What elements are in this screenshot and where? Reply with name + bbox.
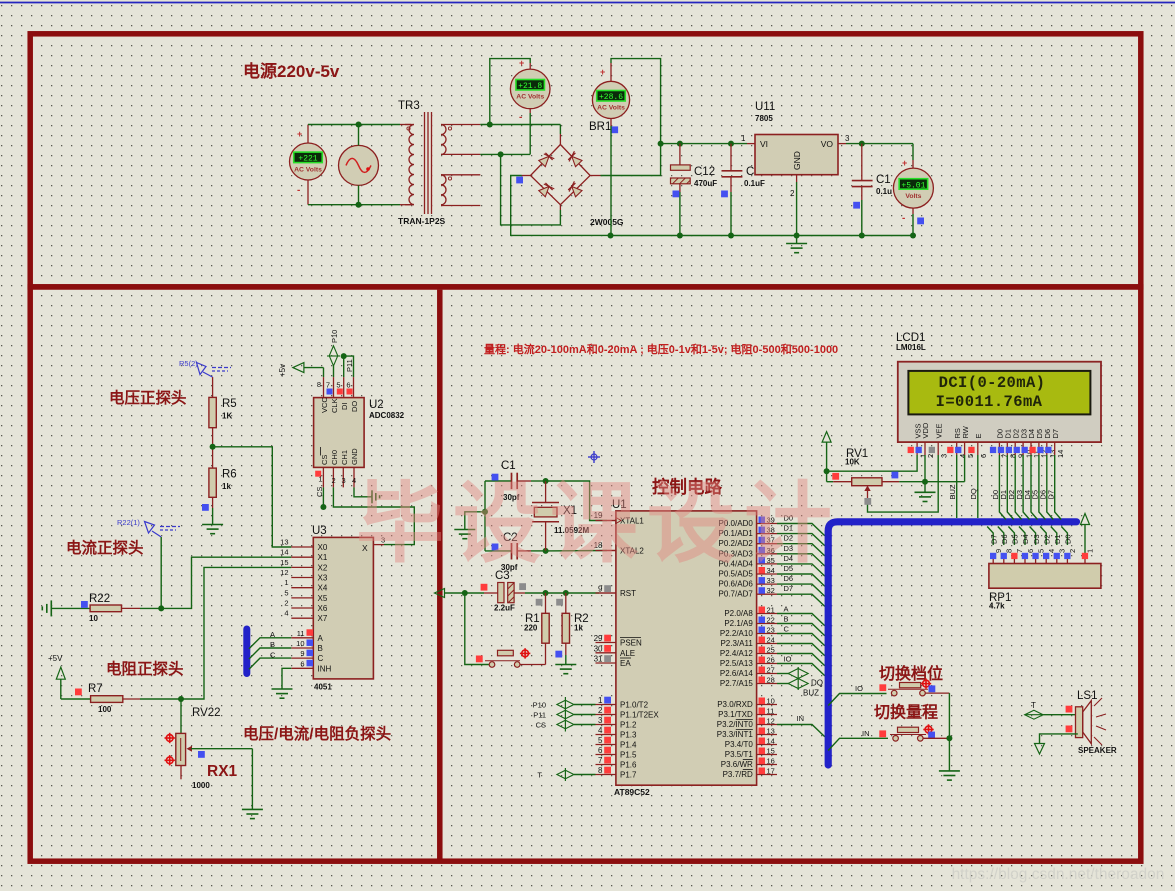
pin P3.4/T0 bbox=[757, 744, 777, 746]
node junction sine top bbox=[356, 122, 362, 128]
svg-text:6: 6 bbox=[300, 659, 304, 668]
wire LCD D3 bbox=[1023, 455, 1030, 520]
wire P2.5 to bus bbox=[777, 664, 825, 676]
potentiometer RV1 bbox=[827, 481, 834, 483]
node junction C12 top bbox=[677, 141, 683, 147]
svg-text:10: 10 bbox=[89, 614, 98, 623]
pin stubs U2 bottom bbox=[322, 467, 324, 487]
svg-text:P10: P10 bbox=[533, 701, 546, 710]
svg-text:VI: VI bbox=[760, 139, 768, 149]
pin marker red button1 bbox=[879, 684, 886, 691]
wire C to bus bbox=[249, 658, 291, 669]
svg-text:15: 15 bbox=[280, 558, 288, 567]
svg-text:X7: X7 bbox=[318, 614, 328, 623]
wire LCD D6 bbox=[1047, 455, 1054, 520]
crystal X1 bbox=[545, 481, 547, 503]
svg-text:14: 14 bbox=[280, 548, 288, 557]
resistor R2 bbox=[565, 593, 567, 613]
svg-text:电源220v-5v: 电源220v-5v bbox=[243, 61, 340, 81]
ground symbol R6 bbox=[202, 524, 223, 526]
node junction voltmeter5 bottom bbox=[910, 233, 916, 239]
pin P0.0/AD0 bbox=[757, 523, 777, 525]
pin marker blue bbox=[611, 126, 618, 133]
pin X1 bbox=[291, 556, 313, 558]
svg-text:C: C bbox=[746, 166, 754, 178]
svg-text:14: 14 bbox=[1056, 450, 1065, 458]
svg-text:P2.7/A15: P2.7/A15 bbox=[720, 679, 753, 688]
wire DI DO tie P11 bbox=[343, 356, 345, 377]
pin X3 bbox=[291, 577, 313, 579]
pin P3.5/T1 bbox=[757, 754, 777, 756]
svg-text:RW: RW bbox=[961, 425, 970, 438]
svg-text:12: 12 bbox=[767, 717, 775, 726]
svg-text:3: 3 bbox=[1058, 549, 1067, 553]
svg-text:8: 8 bbox=[317, 380, 321, 389]
push button reset bbox=[489, 662, 495, 668]
wire probe to R5 bbox=[212, 377, 214, 397]
data bus blue bbox=[828, 522, 1076, 765]
svg-text:RV22: RV22 bbox=[192, 707, 221, 719]
svg-text:11: 11 bbox=[767, 707, 775, 716]
terminal CS bbox=[557, 720, 574, 729]
svg-text:D0: D0 bbox=[1064, 534, 1073, 544]
ground symbol U2 right-facing bbox=[371, 490, 373, 503]
svg-text:26: 26 bbox=[767, 656, 775, 665]
svg-text:P3.3/INT1: P3.3/INT1 bbox=[717, 730, 754, 739]
ground symbol INH bbox=[272, 688, 293, 690]
wire LCD D0 bbox=[999, 455, 1006, 520]
svg-text:13: 13 bbox=[767, 727, 775, 736]
svg-text:8: 8 bbox=[598, 766, 603, 775]
svg-text:RX1: RX1 bbox=[207, 763, 238, 780]
svg-text:1: 1 bbox=[284, 578, 288, 587]
wire R7 node to X2 bbox=[181, 567, 291, 699]
svg-text:4: 4 bbox=[284, 609, 288, 618]
pin marker red speaker bottom bbox=[1066, 726, 1073, 733]
svg-text:X3: X3 bbox=[318, 574, 328, 583]
pin marker grey R2 bbox=[556, 599, 563, 606]
svg-text:电阻正探头: 电阻正探头 bbox=[106, 659, 184, 678]
wire P2.2 to bus bbox=[777, 634, 825, 646]
svg-text:U11: U11 bbox=[755, 101, 775, 113]
svg-text:33: 33 bbox=[767, 576, 775, 585]
wire VO rail bbox=[838, 143, 846, 145]
pin marker blue C2 bbox=[492, 544, 499, 551]
svg-text:P3.0/RXD: P3.0/RXD bbox=[717, 700, 753, 709]
svg-text:25: 25 bbox=[767, 646, 775, 655]
RP1 pin 4 bbox=[1040, 527, 1046, 546]
svg-text:毕: 毕 bbox=[356, 474, 444, 573]
pin P2.3/A11 bbox=[757, 643, 777, 645]
svg-text:U3: U3 bbox=[312, 525, 327, 537]
svg-text:11: 11 bbox=[297, 629, 305, 638]
svg-text:T: T bbox=[537, 771, 542, 780]
pin marker red R7 bbox=[75, 689, 82, 696]
node junction VI bbox=[658, 141, 664, 147]
svg-text:2: 2 bbox=[790, 189, 795, 198]
RP1 pin 8 bbox=[998, 527, 1004, 546]
svg-text:D7: D7 bbox=[784, 584, 794, 593]
pin marker grey R1 bbox=[536, 599, 543, 606]
svg-text:TR3: TR3 bbox=[398, 100, 420, 112]
pin P0.3/AD3 bbox=[757, 553, 777, 555]
node junction rail bbox=[608, 233, 614, 239]
svg-text:量程: 电流20-100mA和0-20mA ; 电压0-1v: 量程: 电流20-100mA和0-20mA ; 电压0-1v和1-5v; 电阻0… bbox=[484, 342, 838, 356]
wire button right to R1 bbox=[520, 664, 546, 666]
node junction divider bbox=[210, 444, 216, 450]
svg-text:P3.4/T0: P3.4/T0 bbox=[725, 740, 754, 749]
wire R22 left bbox=[51, 607, 90, 609]
svg-text:课: 课 bbox=[550, 474, 639, 573]
svg-text:D7: D7 bbox=[1047, 490, 1056, 500]
pin P3.2/INT0 bbox=[757, 724, 777, 726]
wire to bridge bottom bbox=[501, 154, 561, 225]
ground symbol VDD bbox=[924, 482, 926, 493]
pin X7 bbox=[291, 617, 313, 619]
svg-text:CS: CS bbox=[315, 487, 324, 497]
svg-text:DQ: DQ bbox=[811, 679, 823, 688]
svg-text:D6: D6 bbox=[784, 574, 794, 583]
pin X6 bbox=[291, 607, 313, 609]
pin XTAL1 bbox=[596, 520, 616, 522]
svg-text:+: + bbox=[600, 67, 605, 77]
potentiometer RV22 bbox=[180, 699, 182, 733]
pin P1.2 bbox=[596, 724, 616, 726]
ground symbol XTAL bbox=[454, 529, 475, 531]
svg-text:D3: D3 bbox=[1032, 534, 1041, 544]
RP1 pin 6 bbox=[1019, 527, 1025, 546]
pin X4 bbox=[291, 587, 313, 589]
resistor R6 bbox=[209, 468, 216, 497]
wire RST node bbox=[546, 592, 600, 594]
pin marker red speaker top bbox=[1066, 706, 1073, 713]
svg-text:AC Volts: AC Volts bbox=[294, 166, 322, 173]
wire P3.2 IN to bus bbox=[777, 725, 825, 737]
pin P0.5/AD5 bbox=[757, 573, 777, 575]
svg-text:P1.1/T2EX: P1.1/T2EX bbox=[620, 711, 659, 720]
pin PSEN bbox=[596, 642, 616, 644]
svg-text:EA: EA bbox=[620, 659, 631, 668]
svg-text:A: A bbox=[318, 634, 324, 643]
cursor crosshair marker bbox=[588, 451, 600, 463]
svg-text:P1.6: P1.6 bbox=[620, 761, 637, 770]
svg-text:D7: D7 bbox=[1051, 429, 1060, 439]
svg-text:P2.0/A8: P2.0/A8 bbox=[724, 609, 753, 618]
svg-text:+28.6: +28.6 bbox=[599, 93, 623, 102]
svg-text:4051: 4051 bbox=[314, 683, 332, 692]
pin EA bbox=[596, 662, 616, 664]
svg-text:INH: INH bbox=[318, 664, 332, 673]
svg-text:6: 6 bbox=[1026, 549, 1035, 553]
terminal chain P10 P11 CS bbox=[564, 697, 566, 732]
svg-text:2: 2 bbox=[598, 706, 603, 715]
push button 切换档位 bbox=[891, 690, 897, 696]
svg-text:P0.7/AD7: P0.7/AD7 bbox=[719, 590, 754, 599]
wire divider to X0 bbox=[213, 447, 292, 547]
svg-text:CH0: CH0 bbox=[330, 450, 339, 465]
wire D0 to bus bbox=[777, 524, 825, 536]
node junction C top bbox=[728, 141, 734, 147]
pin B bbox=[291, 647, 313, 649]
svg-text:2: 2 bbox=[284, 599, 288, 608]
svg-text:+5v: +5v bbox=[278, 364, 287, 377]
pin marker blue bridge left bbox=[516, 177, 523, 184]
svg-text:0.1uF: 0.1uF bbox=[744, 179, 765, 188]
svg-text:P3.7/RD: P3.7/RD bbox=[723, 770, 753, 779]
svg-text:AC Volts: AC Volts bbox=[516, 94, 544, 101]
svg-text:+: + bbox=[902, 158, 907, 168]
pin P0.1/AD1 bbox=[757, 533, 777, 535]
wire VI rail bbox=[661, 143, 747, 145]
wire R7 right bbox=[123, 698, 140, 700]
svg-text:DQ: DQ bbox=[969, 488, 978, 499]
svg-text:+221: +221 bbox=[298, 155, 317, 164]
terminal P10 bbox=[557, 700, 574, 709]
RP1 pin 9 bbox=[987, 527, 993, 546]
wire P2.3 to bus bbox=[777, 644, 825, 656]
pin X2 bbox=[291, 566, 313, 568]
svg-text:https://blog.csdn.net/theroado: https://blog.csdn.net/theroadon bbox=[952, 866, 1165, 883]
wire D3 to bus bbox=[777, 554, 825, 566]
wire D7 to bus bbox=[777, 594, 825, 606]
terminal BUZ diamond bbox=[788, 679, 808, 689]
pin P0.2/AD2 bbox=[757, 543, 777, 545]
svg-text:R5: R5 bbox=[222, 398, 237, 410]
svg-text:设: 设 bbox=[453, 474, 541, 573]
svg-text:BR1: BR1 bbox=[589, 121, 611, 133]
svg-text:7805: 7805 bbox=[755, 114, 773, 123]
pin P3.6/WR bbox=[757, 764, 777, 766]
RP1 pin 7 bbox=[1008, 527, 1014, 546]
pin marker blue C1 bbox=[492, 474, 499, 481]
svg-text:27: 27 bbox=[767, 666, 775, 675]
svg-text:6: 6 bbox=[979, 454, 988, 458]
svg-text:10: 10 bbox=[767, 697, 775, 706]
wire D4 to bus bbox=[777, 564, 825, 576]
ground symbol R2 bbox=[555, 664, 576, 666]
DC voltmeter +5.01 bbox=[912, 144, 914, 160]
svg-text:2: 2 bbox=[1068, 549, 1077, 553]
svg-text:AC Volts: AC Volts bbox=[597, 105, 625, 112]
wire bridge right to VI bbox=[590, 175, 600, 177]
node junction XTAL2 bbox=[543, 548, 549, 554]
node junction XTAL1 bbox=[543, 478, 549, 484]
wire P2.4 to bus bbox=[777, 654, 825, 666]
svg-text:28: 28 bbox=[767, 676, 775, 685]
svg-text:4: 4 bbox=[598, 726, 603, 735]
pin C bbox=[291, 657, 313, 659]
svg-text:X5: X5 bbox=[318, 594, 328, 603]
wire A to bus bbox=[249, 638, 291, 649]
pin marker grey wiper bbox=[864, 498, 871, 505]
svg-text:3: 3 bbox=[939, 454, 948, 458]
pin 2 wire bbox=[796, 175, 798, 182]
svg-text:C1: C1 bbox=[501, 460, 516, 472]
svg-text:1: 1 bbox=[741, 134, 746, 143]
wire secondary top to bridge bbox=[480, 124, 560, 126]
node junction R7 bbox=[178, 696, 184, 702]
wire wiper to ground bbox=[251, 749, 253, 810]
wire D1 to bus bbox=[777, 534, 825, 546]
svg-text:切换档位: 切换档位 bbox=[879, 664, 943, 683]
svg-text:P2.6/A14: P2.6/A14 bbox=[720, 669, 753, 678]
handle marker top bbox=[166, 735, 173, 742]
svg-text:VO: VO bbox=[821, 139, 834, 149]
svg-text:R6: R6 bbox=[222, 469, 237, 481]
ground symbol RV22 bbox=[242, 808, 263, 810]
wire XTAL2 to U1 bbox=[546, 550, 607, 552]
pin INH bbox=[291, 667, 313, 669]
svg-text:1k: 1k bbox=[574, 624, 583, 633]
pin marker blue RV1 bbox=[892, 472, 899, 479]
svg-text:CLK: CLK bbox=[330, 398, 339, 413]
wire R6 to ground bbox=[212, 497, 214, 508]
svg-text:DO: DO bbox=[350, 401, 359, 412]
wire VDD down bbox=[924, 455, 926, 482]
svg-text:1: 1 bbox=[1086, 549, 1095, 553]
svg-text:B: B bbox=[784, 615, 789, 624]
wiper arrow RV22 bbox=[187, 746, 193, 752]
chip U3 4051 bbox=[313, 537, 373, 679]
pin marker blue R6 bbox=[202, 504, 209, 511]
svg-text:LS1: LS1 bbox=[1077, 690, 1097, 702]
outer border frame top section bbox=[30, 34, 1141, 287]
svg-text:计: 计 bbox=[744, 474, 832, 573]
resistor pack RP1 bbox=[989, 564, 1101, 589]
svg-text:+5.01: +5.01 bbox=[901, 181, 925, 190]
pin P0.4/AD4 bbox=[757, 563, 777, 565]
svg-text:P1.3: P1.3 bbox=[620, 731, 637, 740]
pin RST bbox=[596, 592, 616, 594]
wire LCD D1 bbox=[1007, 455, 1014, 520]
svg-text:8: 8 bbox=[1005, 549, 1014, 553]
svg-text:7: 7 bbox=[326, 381, 330, 390]
svg-text:12: 12 bbox=[280, 568, 288, 577]
handle marker bottom bbox=[166, 757, 173, 764]
svg-text:1K: 1K bbox=[222, 412, 232, 421]
svg-text:IO: IO bbox=[784, 655, 792, 664]
wire bus to button2 bbox=[828, 738, 888, 750]
wire reset button left bbox=[465, 593, 489, 665]
pin marker blue C bbox=[721, 191, 728, 198]
wire VSS to +5V rail bbox=[827, 455, 918, 471]
svg-text:C12: C12 bbox=[694, 166, 715, 178]
pin marker grey C3 right bbox=[519, 583, 526, 590]
svg-text:R22: R22 bbox=[89, 593, 110, 605]
svg-text:P2.1/A9: P2.1/A9 bbox=[724, 619, 753, 628]
svg-text:P10: P10 bbox=[330, 330, 339, 343]
svg-text:10K: 10K bbox=[845, 458, 860, 467]
pin marker blue C13 bbox=[853, 202, 860, 209]
svg-text:IN: IN bbox=[862, 729, 870, 738]
pin marker red button2 bbox=[879, 730, 886, 737]
svg-text:6: 6 bbox=[346, 381, 350, 390]
bridge rectifier BR1 bbox=[531, 145, 591, 205]
svg-text:4: 4 bbox=[1047, 549, 1056, 553]
terminal arrow down speaker bbox=[1035, 744, 1045, 755]
svg-text:P2.2/A10: P2.2/A10 bbox=[720, 629, 753, 638]
svg-text:31: 31 bbox=[594, 655, 603, 664]
svg-text:Volts: Volts bbox=[905, 193, 921, 200]
node junction center tap bbox=[498, 151, 504, 157]
wire bridge left to ground rail bbox=[522, 175, 531, 177]
wire P2.0 to bus bbox=[777, 614, 825, 626]
pin A bbox=[291, 637, 313, 639]
svg-text:VCC: VCC bbox=[320, 397, 329, 413]
power terminal bus right bbox=[1081, 514, 1090, 525]
node junction sine bottom bbox=[356, 202, 362, 208]
svg-text:5: 5 bbox=[598, 736, 603, 745]
node junction C12 bottom bbox=[677, 233, 683, 239]
pin marker blue R22 bbox=[81, 601, 88, 608]
wire R2 to ground bbox=[565, 643, 567, 655]
section divider vertical bbox=[437, 290, 443, 859]
svg-text:I=0011.76mA: I=0011.76mA bbox=[936, 393, 1043, 411]
RP1 pin 3 bbox=[1051, 527, 1057, 546]
pin P1.0/T2 bbox=[596, 704, 616, 706]
svg-text:P0.6/AD6: P0.6/AD6 bbox=[719, 580, 754, 589]
node junction reset left bbox=[462, 590, 468, 596]
wire D6 to bus bbox=[777, 584, 825, 596]
LCD display body bbox=[898, 362, 1101, 442]
wire primary bottom bbox=[308, 204, 400, 206]
svg-text:C: C bbox=[784, 625, 790, 634]
svg-text:X2: X2 bbox=[318, 563, 328, 572]
ground symbol 7805 bbox=[796, 236, 798, 244]
pin P0.7/AD7 bbox=[757, 593, 777, 595]
outer border frame bottom section bbox=[30, 287, 1141, 861]
node junction cap gnd bbox=[482, 509, 488, 515]
svg-text:1: 1 bbox=[318, 475, 322, 484]
pin marker red RV1 bbox=[832, 473, 839, 480]
node junction C13 bottom bbox=[859, 233, 865, 239]
svg-text:P3.1/TXD: P3.1/TXD bbox=[718, 710, 753, 719]
svg-text:设: 设 bbox=[647, 474, 735, 573]
wire RW down bbox=[964, 455, 966, 482]
wire INH to ground bbox=[282, 668, 291, 689]
svg-text:TRAN-1P2S: TRAN-1P2S bbox=[398, 216, 446, 226]
svg-text:-: - bbox=[297, 185, 300, 196]
svg-text:电压正探头: 电压正探头 bbox=[109, 388, 187, 407]
wire button1 right bbox=[925, 692, 949, 694]
svg-text:BUZ: BUZ bbox=[803, 689, 819, 698]
pin P1.5 bbox=[596, 754, 616, 756]
pin marker blue button1 bbox=[929, 685, 936, 692]
svg-text:0.1u: 0.1u bbox=[876, 187, 892, 196]
wire ground rail bbox=[611, 235, 914, 237]
pin P2.4/A12 bbox=[757, 653, 777, 655]
pin marker blue RX1 bbox=[198, 751, 205, 758]
svg-text:14: 14 bbox=[767, 737, 775, 746]
svg-text:GND: GND bbox=[350, 448, 359, 465]
terminal T bbox=[564, 768, 566, 781]
svg-text:32: 32 bbox=[767, 586, 775, 595]
svg-text:D6: D6 bbox=[1000, 534, 1009, 544]
svg-text:P2.4/A12: P2.4/A12 bbox=[720, 649, 753, 658]
svg-text:+5V: +5V bbox=[48, 654, 63, 663]
svg-text:P1.7: P1.7 bbox=[620, 771, 637, 780]
svg-text:5: 5 bbox=[284, 588, 288, 597]
svg-text:P1.4: P1.4 bbox=[620, 741, 637, 750]
svg-text:1000: 1000 bbox=[192, 781, 210, 790]
svg-text:2.2uF: 2.2uF bbox=[494, 604, 515, 613]
svg-text:5: 5 bbox=[1036, 549, 1045, 553]
svg-text:1k: 1k bbox=[222, 482, 231, 491]
mini ground R22 left bbox=[50, 600, 52, 616]
svg-text:4.7k: 4.7k bbox=[989, 602, 1005, 611]
svg-text:P2.5/A13: P2.5/A13 bbox=[720, 659, 753, 668]
svg-text:X0: X0 bbox=[318, 543, 328, 552]
